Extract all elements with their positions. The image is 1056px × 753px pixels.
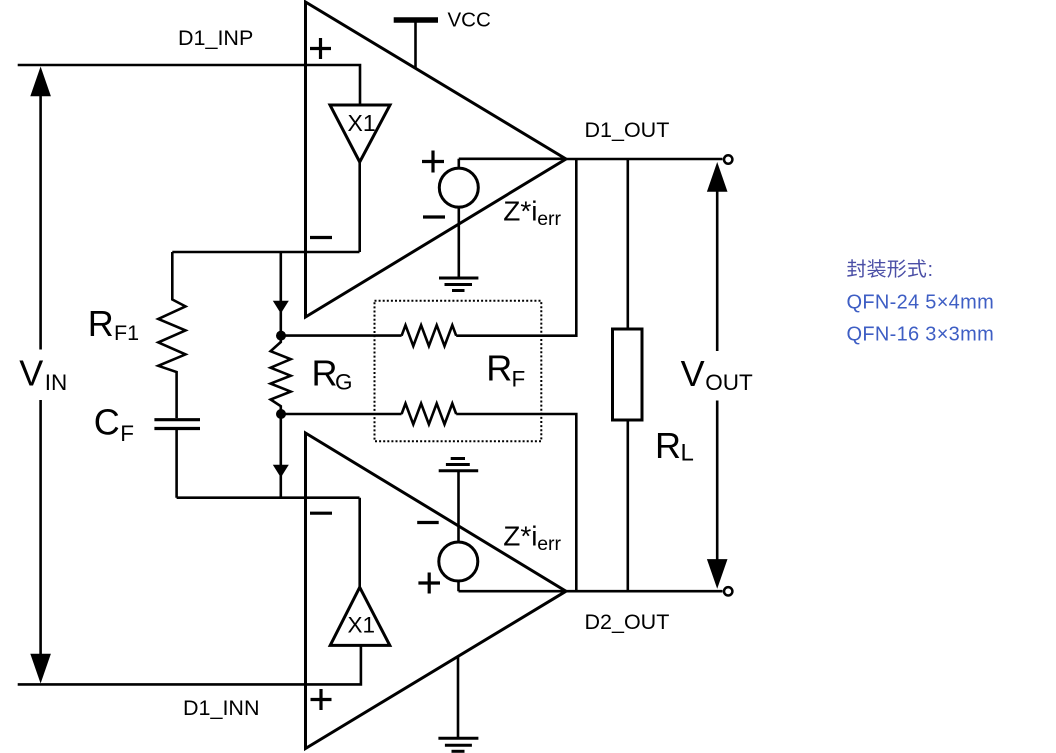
minus sign bottom amp inverting: [310, 512, 332, 515]
op-amp U1 (top driver triangle): [306, 2, 567, 317]
capacitor CF: [154, 418, 200, 421]
wire CF to lower node: [175, 430, 178, 498]
wire node to RF upper: [281, 334, 402, 337]
VOUT measure line: [716, 186, 719, 563]
source Z*ierr bottom: vertical stem: [457, 472, 460, 592]
source Z*ierr top circle: [439, 168, 478, 207]
terminal D2_OUT: [724, 587, 732, 595]
svg-text:R: R: [312, 352, 338, 393]
svg-text:X1: X1: [348, 110, 376, 136]
svg-text:F1: F1: [114, 321, 139, 345]
label VIN (with white backing over measure line): [32, 350, 50, 401]
arrowhead VOUT bottom: [707, 559, 728, 589]
wire feed from RG bottom (with arrow): [279, 414, 282, 498]
wire RL bottom: [626, 420, 629, 591]
terminal D1_OUT: [724, 155, 732, 163]
plus sign bottom amp input: [311, 689, 332, 710]
minus sign top amp inverting: [310, 236, 332, 239]
svg-text:G: G: [335, 370, 353, 395]
arrowhead feed upper: [273, 301, 289, 314]
svg-text:R: R: [655, 425, 681, 466]
plus sign bottom source: [418, 573, 440, 594]
svg-text:R: R: [88, 303, 114, 344]
wire inner bottom (top amp inverting node): [172, 251, 359, 254]
dashed box around RF pair: [375, 301, 542, 441]
op-amp U2 (bottom driver triangle): [306, 433, 567, 749]
svg-text:R: R: [486, 348, 512, 389]
svg-text:D1_INP: D1_INP: [178, 26, 253, 50]
arrowhead VIN bottom: [30, 654, 51, 684]
note package header (Chinese, drawn as paths): [847, 259, 865, 277]
VCC stem: [414, 20, 417, 69]
svg-text:err: err: [537, 208, 561, 230]
svg-text:L: L: [681, 440, 694, 467]
svg-text:QFN-16 3×3mm: QFN-16 3×3mm: [847, 324, 995, 346]
svg-text:C: C: [94, 402, 120, 443]
wire source to apex (D1 output inside): [459, 158, 566, 161]
source Z*ierr top: vertical stem: [457, 159, 460, 277]
wire RF upper to D1_OUT: [456, 159, 576, 336]
minus sign top source: [423, 215, 445, 218]
svg-text::: :: [928, 259, 934, 281]
svg-text:D1_INN: D1_INN: [183, 696, 259, 720]
svg-text:V: V: [681, 353, 705, 394]
wire RF lower to D2_OUT: [456, 414, 576, 591]
resistor RL body: [613, 329, 643, 420]
svg-text:VCC: VCC: [448, 9, 491, 32]
svg-text:X1: X1: [348, 613, 376, 638]
wire source to apex (D2 output inside): [459, 590, 567, 593]
svg-text:IN: IN: [45, 370, 68, 395]
plus sign top amp input: [310, 38, 331, 59]
resistor RF1: [158, 252, 185, 418]
buffer X1 (bottom, pointing up): [330, 587, 390, 645]
resistor RG: [271, 336, 291, 414]
svg-text:F: F: [120, 421, 134, 446]
ground below bottom amp: stem: [457, 657, 460, 737]
wire D1_OUT: [566, 158, 723, 161]
svg-text:QFN-24 5×4mm: QFN-24 5×4mm: [847, 292, 995, 314]
arrowhead VOUT top: [707, 162, 728, 192]
wire feed to RG top (with arrow): [279, 252, 282, 335]
arrowhead VIN top: [30, 67, 51, 97]
node junction dot upper: [276, 331, 286, 341]
resistor RF upper: [402, 325, 457, 346]
wire inner top (bottom amp inverting node): [177, 496, 360, 499]
wire D2_OUT: [566, 590, 723, 593]
wire X1 top output to summing node: [358, 162, 361, 252]
wire D1_INP input: [18, 65, 360, 105]
svg-text:V: V: [19, 353, 43, 394]
svg-text:D2_OUT: D2_OUT: [585, 610, 670, 634]
resistor RF lower: [402, 404, 457, 425]
wire X1 bottom input: [358, 498, 361, 588]
source Z*ierr bottom circle: [439, 542, 478, 581]
inverted ground bottom amp: [451, 457, 465, 460]
buffer X1 (top, pointing down): [330, 105, 390, 162]
ground top amp: [439, 277, 478, 280]
plus sign top source: [422, 151, 444, 173]
arrowhead feed lower: [273, 465, 289, 478]
minus sign bottom source: [417, 521, 439, 524]
svg-text:err: err: [537, 533, 561, 555]
svg-text:F: F: [512, 366, 526, 391]
VIN measure line: [39, 92, 42, 658]
VCC bar: [394, 17, 438, 23]
svg-text:OUT: OUT: [705, 370, 753, 395]
ground below bottom amp: [438, 737, 478, 740]
wire RL top: [626, 159, 629, 329]
svg-text:Z*i: Z*i: [503, 196, 537, 227]
wire node to RF lower: [281, 413, 402, 416]
wire D1_INN input: [18, 645, 361, 684]
svg-text:Z*i: Z*i: [503, 520, 537, 551]
label VOUT (with white backing over measure line): [708, 351, 726, 401]
node junction dot lower: [276, 409, 286, 419]
svg-text:D1_OUT: D1_OUT: [585, 118, 670, 142]
